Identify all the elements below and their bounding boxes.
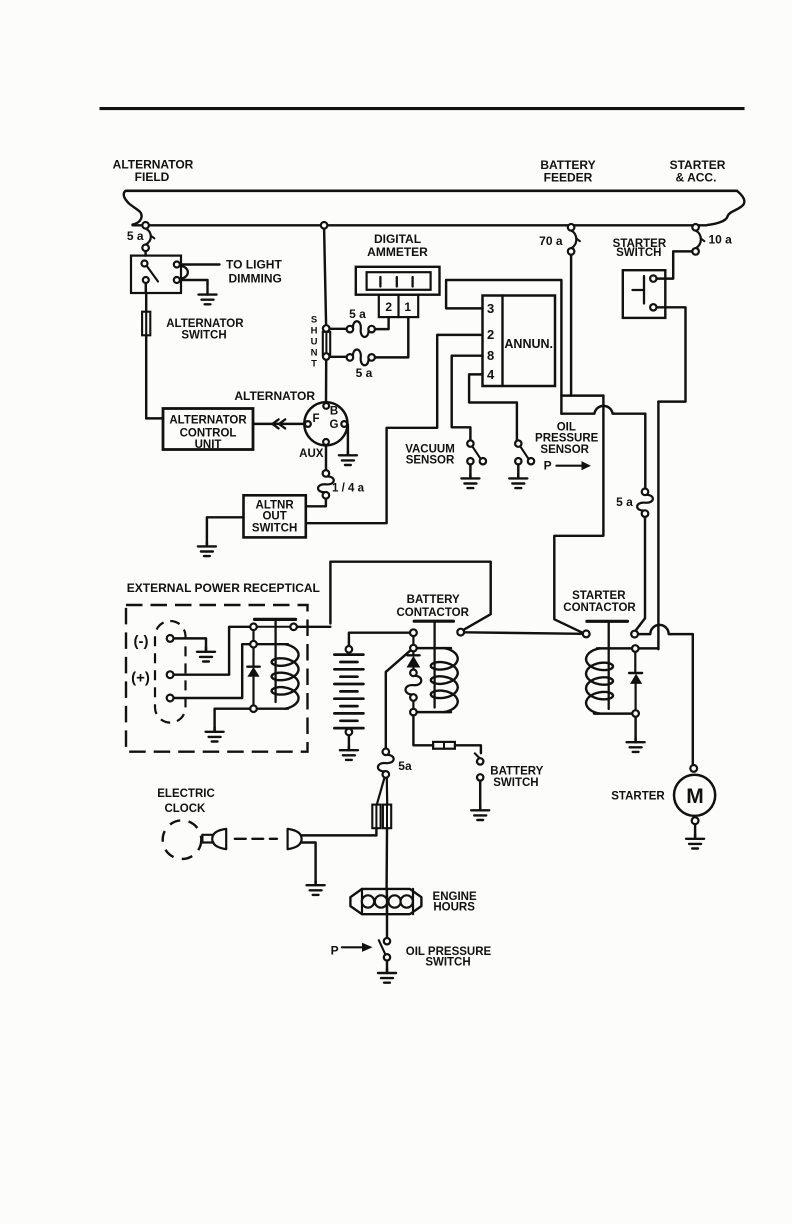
svg-text:UNIT: UNIT <box>195 439 222 451</box>
svg-text:STARTER: STARTER <box>611 790 665 802</box>
svg-text:10 a: 10 a <box>709 232 733 246</box>
svg-text:HOURS: HOURS <box>433 902 475 914</box>
svg-text:T: T <box>311 358 317 369</box>
svg-text:H: H <box>311 325 318 336</box>
svg-text:P: P <box>544 458 552 472</box>
svg-text:(+): (+) <box>131 670 150 687</box>
svg-text:8: 8 <box>487 348 494 363</box>
svg-text:SWITCH: SWITCH <box>252 523 297 535</box>
svg-text:5 a: 5 a <box>127 229 144 243</box>
svg-text:1: 1 <box>404 300 411 314</box>
svg-text:STARTER: STARTER <box>572 590 626 602</box>
svg-text:OUT: OUT <box>262 511 286 523</box>
svg-text:4: 4 <box>487 367 495 382</box>
svg-text:VACUUM: VACUUM <box>405 443 455 455</box>
svg-text:DIMMING: DIMMING <box>229 272 282 286</box>
svg-text:1 / 4 a: 1 / 4 a <box>332 483 365 495</box>
svg-text:DIGITAL: DIGITAL <box>374 232 421 246</box>
svg-text:5 a: 5 a <box>349 307 366 321</box>
svg-text:SENSOR: SENSOR <box>406 455 455 467</box>
svg-text:(-): (-) <box>134 633 149 650</box>
svg-text:F: F <box>312 413 319 425</box>
svg-text:& ACC.: & ACC. <box>676 170 717 184</box>
svg-text:SWITCH: SWITCH <box>616 247 661 259</box>
svg-text:U: U <box>311 336 318 347</box>
svg-text:SWITCH: SWITCH <box>493 777 538 789</box>
svg-text:ALTERNATOR: ALTERNATOR <box>234 389 315 403</box>
svg-text:CLOCK: CLOCK <box>164 803 206 815</box>
svg-text:S: S <box>311 314 317 325</box>
svg-text:ELECTRIC: ELECTRIC <box>157 788 215 800</box>
svg-text:PRESSURE: PRESSURE <box>535 432 599 444</box>
svg-text:M: M <box>686 785 704 808</box>
svg-text:SENSOR: SENSOR <box>540 444 589 456</box>
svg-text:B: B <box>330 405 338 417</box>
svg-text:ANNUN.: ANNUN. <box>504 337 553 351</box>
svg-text:70 a: 70 a <box>539 234 563 248</box>
svg-text:ALTERNATOR: ALTERNATOR <box>166 318 244 330</box>
svg-text:SWITCH: SWITCH <box>425 956 470 968</box>
svg-text:N: N <box>311 347 318 358</box>
svg-text:3: 3 <box>487 301 494 316</box>
svg-text:FEEDER: FEEDER <box>544 170 593 184</box>
svg-text:CONTACTOR: CONTACTOR <box>563 602 636 614</box>
svg-text:ALTERNATOR: ALTERNATOR <box>169 415 247 427</box>
svg-text:TO LIGHT: TO LIGHT <box>226 258 282 272</box>
svg-text:SWITCH: SWITCH <box>181 330 226 342</box>
svg-text:AMMETER: AMMETER <box>367 245 428 259</box>
svg-text:ALTNR: ALTNR <box>256 499 295 511</box>
svg-text:FIELD: FIELD <box>135 170 170 184</box>
svg-text:P: P <box>331 944 339 958</box>
svg-text:2: 2 <box>487 327 494 342</box>
svg-text:AUX: AUX <box>299 448 324 460</box>
svg-text:5 a: 5 a <box>356 366 373 380</box>
svg-text:G: G <box>330 419 339 431</box>
svg-text:5a: 5a <box>398 759 412 773</box>
svg-text:CONTACTOR: CONTACTOR <box>396 607 469 619</box>
svg-text:CONTROL: CONTROL <box>180 427 237 439</box>
svg-text:BATTERY: BATTERY <box>490 765 543 777</box>
svg-text:EXTERNAL POWER RECEPTICAL: EXTERNAL POWER RECEPTICAL <box>127 581 320 595</box>
svg-text:2: 2 <box>385 300 392 314</box>
svg-text:5 a: 5 a <box>616 495 633 509</box>
svg-text:BATTERY: BATTERY <box>407 594 460 606</box>
